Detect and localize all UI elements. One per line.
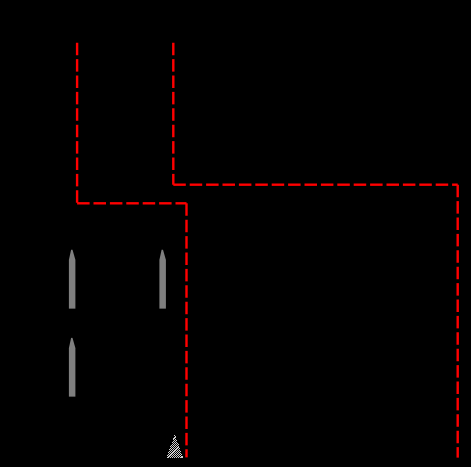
gray arrow 2 (lower left) — [69, 338, 76, 397]
red dashed line B: horizontal segment — [173, 183, 457, 185]
gray arrow 1 (upper left) — [69, 250, 76, 309]
red dashed line B: lower vertical segment — [457, 185, 459, 458]
red dashed line A: lower vertical segment — [185, 203, 187, 457]
red dashed line B: upper vertical segment — [172, 43, 174, 185]
red dashed line A: horizontal segment — [77, 202, 186, 204]
gray arrow 3 (upper right) — [159, 250, 166, 309]
hatched triangle marker — [167, 435, 183, 458]
red dashed line A: upper vertical segment — [76, 43, 78, 204]
